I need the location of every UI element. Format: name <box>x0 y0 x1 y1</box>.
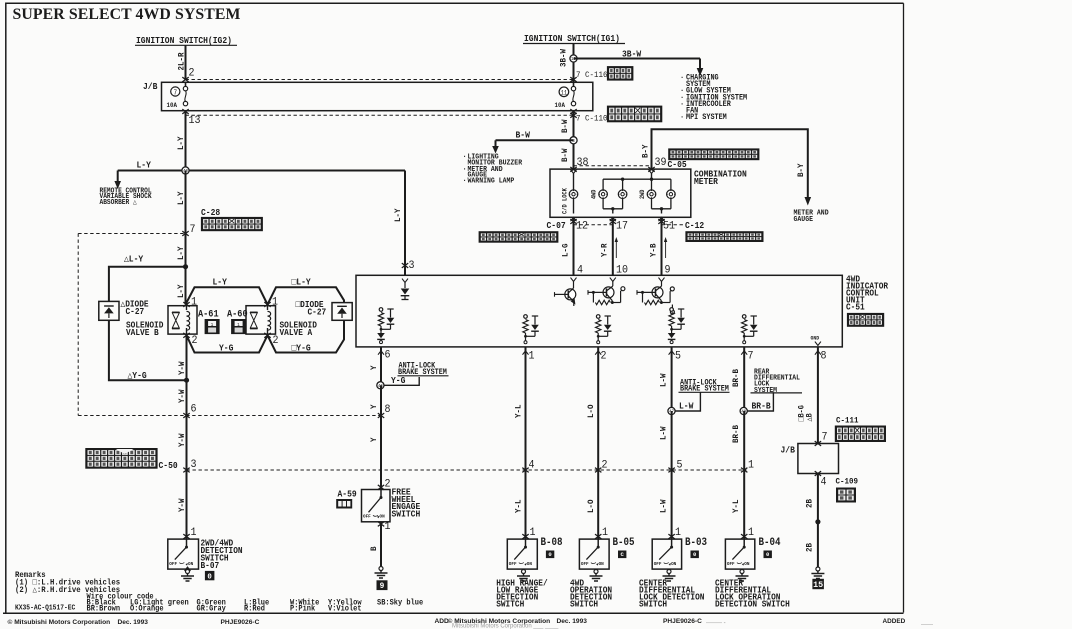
connector C-50 icon <box>85 448 157 469</box>
wire Y-W down to pin 6 crossing <box>186 380 188 415</box>
wire Y to A-59 <box>380 416 382 490</box>
svg-text:8: 8 <box>821 350 827 363</box>
svg-text:L-Y: L-Y <box>177 191 187 205</box>
wire bridge L-Y valves (top left) <box>186 287 268 304</box>
svg-text:ON: ON <box>188 561 193 567</box>
svg-text:1: 1 <box>272 296 278 309</box>
svg-text:1: 1 <box>529 350 535 363</box>
icon below B-07 <box>205 571 215 580</box>
svg-text:5: 5 <box>677 459 683 472</box>
svg-text:1: 1 <box>211 322 214 328</box>
feed wire from 39 to lamp rail <box>651 174 653 180</box>
connector C-109 icon <box>836 488 856 503</box>
svg-text:6: 6 <box>191 403 197 416</box>
junction dot 2B <box>815 519 820 524</box>
svg-text:A-59: A-59 <box>338 489 357 500</box>
svg-text:Y-W: Y-W <box>178 361 188 375</box>
svg-text:OFF: OFF <box>727 561 735 567</box>
junction dot L-Y branch <box>183 264 188 269</box>
lamp group 2WD <box>651 179 653 190</box>
svg-text:Y-L: Y-L <box>514 404 524 418</box>
wire L-O to B-05 <box>597 470 599 539</box>
svg-text:ABSORBER △: ABSORBER △ <box>100 199 137 208</box>
svg-text:2: 2 <box>602 459 608 472</box>
center diff lock operation switch B-04 box <box>725 539 754 569</box>
high/low range switch B-08 box <box>507 539 537 569</box>
icon B-05 <box>618 551 626 559</box>
svg-text:J/B: J/B <box>143 82 157 93</box>
svg-text:·: · <box>680 101 684 110</box>
svg-text:L-W: L-W <box>659 499 669 513</box>
svg-text:ON: ON <box>599 561 604 567</box>
meter entry 38 <box>571 170 577 174</box>
svg-text:OFF: OFF <box>509 561 517 567</box>
wire L-W splice to crossing <box>671 411 673 470</box>
svg-text:6: 6 <box>385 349 391 362</box>
svg-text:Y-L: Y-L <box>731 499 741 513</box>
splice 46 Y-G <box>377 382 384 389</box>
wire 3B-W to systems arrow <box>574 58 701 60</box>
svg-text:10A: 10A <box>167 102 178 109</box>
svg-text:B-W: B-W <box>560 148 570 162</box>
svg-text:SB:Sky blue: SB:Sky blue <box>377 599 424 608</box>
svg-text:C-27: C-27 <box>308 307 327 318</box>
wire pin8 down <box>817 347 819 444</box>
diode at pin 3 input <box>404 283 406 289</box>
anti-lock brake system tap (left) <box>384 377 420 385</box>
svg-text:7 C-110: 7 C-110 <box>576 114 608 124</box>
icon B-04 <box>764 551 772 559</box>
svg-text:C-12: C-12 <box>685 221 704 232</box>
wire Y-B 51 to 9 <box>661 217 663 275</box>
svg-text:V:Violet: V:Violet <box>328 605 362 614</box>
svg-text:ON: ON <box>380 513 385 519</box>
svg-text:C-28: C-28 <box>201 208 220 219</box>
wire triangle diode to junction <box>109 320 187 380</box>
svg-text:L-Y: L-Y <box>177 246 187 260</box>
meter entry 39 <box>649 170 655 174</box>
wire B to ground <box>380 522 382 566</box>
svg-text:L-O: L-O <box>587 404 597 418</box>
wire BR-B splice to crossing <box>743 411 745 470</box>
icon B-08 <box>546 551 554 559</box>
wire branch to diode C-27 (triangle) <box>109 267 186 302</box>
connector C-07 icon <box>479 231 559 243</box>
svg-text:2B: 2B <box>805 499 815 508</box>
svg-text:B-Y: B-Y <box>797 163 807 177</box>
exit chevrons control unit bottom <box>378 351 384 355</box>
lamp rail top <box>603 178 671 180</box>
wire bridge square diode (bottom right) <box>268 320 345 352</box>
svg-text:3B-W: 3B-W <box>559 49 569 67</box>
svg-text:·: · <box>463 177 467 186</box>
connector C-110 icon <box>607 106 662 123</box>
svg-text:△L-Y: △L-Y <box>124 254 144 265</box>
svg-text:BR-B: BR-B <box>752 401 771 412</box>
4WD indicator control unit box C-51 <box>356 275 842 347</box>
svg-text:L-Y: L-Y <box>213 277 228 288</box>
svg-text:C-50: C-50 <box>159 461 178 472</box>
svg-text:4WD: 4WD <box>590 189 597 199</box>
svg-text:OFF: OFF <box>581 561 589 567</box>
lamp C/D LOCK <box>573 174 575 191</box>
svg-text:B-Y: B-Y <box>641 144 651 158</box>
2WD/4WD detection switch B-07 box <box>168 539 199 569</box>
diode C-27 triangle box <box>99 301 119 320</box>
wire Y-W valve B down to junction <box>186 335 188 380</box>
resistor-zener pair pin 2 <box>596 315 600 319</box>
svg-text:B-W: B-W <box>560 119 570 133</box>
wire L-W pin5 to splice <box>671 347 673 411</box>
svg-text:3: 3 <box>191 458 197 471</box>
svg-text:SWITCH: SWITCH <box>639 599 667 610</box>
ground ref 9 <box>377 580 388 590</box>
svg-text:1: 1 <box>675 526 681 539</box>
svg-text:------: ------ <box>921 622 933 628</box>
4WD operation switch B-05 box <box>579 539 609 569</box>
svg-text:5: 5 <box>675 350 681 363</box>
svg-text:WARNING LAMP: WARNING LAMP <box>468 177 515 186</box>
svg-text:L-W: L-W <box>659 373 669 387</box>
svg-text:□L-Y: □L-Y <box>292 277 312 288</box>
wire B-W to lighting arrow <box>496 139 574 141</box>
svg-text:B: B <box>370 546 380 551</box>
valve B pin 1 <box>183 302 189 307</box>
svg-text:BR-B: BR-B <box>731 369 741 387</box>
fuse 11 10A (IG1) <box>559 87 569 97</box>
svg-text:7: 7 <box>174 89 178 96</box>
svg-text:P:Pink: P:Pink <box>290 605 316 614</box>
ground below B-04 <box>740 570 744 574</box>
svg-text:39: 39 <box>655 156 667 169</box>
resistor-zener pair pin 5 <box>670 308 674 312</box>
splice 48 BR-B <box>740 407 747 414</box>
free wheel engage switch A-59 box <box>362 490 391 522</box>
svg-text:Y-G: Y-G <box>219 343 233 354</box>
wire IG2 feed 2L-R <box>185 45 187 80</box>
svg-text:SYSTEM: SYSTEM <box>754 386 777 395</box>
wire Y-L pin1 down <box>525 347 527 470</box>
svg-text:7: 7 <box>748 350 754 363</box>
svg-text:GR:Gray: GR:Gray <box>197 605 227 614</box>
svg-text:B-07: B-07 <box>201 561 220 572</box>
connector C-116 icon <box>607 66 634 81</box>
valve A pin 2 <box>264 333 270 338</box>
svg-text:1: 1 <box>748 459 754 472</box>
svg-text:A-60: A-60 <box>227 308 248 320</box>
svg-text:1: 1 <box>748 526 754 539</box>
connector C-111 icon <box>835 426 886 443</box>
connector icon A-61 <box>205 319 220 334</box>
svg-text:L-Y: L-Y <box>177 136 187 150</box>
svg-text:4: 4 <box>821 476 827 489</box>
svg-text:17: 17 <box>616 220 628 233</box>
lamp group 4WD <box>602 179 604 190</box>
wire Y-W to C-50 <box>186 416 188 471</box>
dashed option box (LH/RH drive) <box>78 233 185 235</box>
dashed C-05 line <box>574 165 652 167</box>
wire B-W fuse to splice <box>573 111 575 170</box>
valve B pin 2 <box>183 333 189 338</box>
splice 40 L-Y <box>182 167 189 174</box>
svg-text:7 C-116: 7 C-116 <box>576 71 608 81</box>
svg-text:Y-W: Y-W <box>178 433 188 447</box>
wire B-Y to meter and gauge <box>652 129 808 198</box>
svg-text:GND: GND <box>811 335 820 341</box>
wire Y-W to B-07 <box>186 470 188 539</box>
resistor-zener pair pin 7 <box>742 315 746 319</box>
solenoid valve A symbol <box>250 311 258 313</box>
svg-text:IGNITION SWITCH(IG1): IGNITION SWITCH(IG1) <box>524 34 620 45</box>
wire BR-B pin7 to splice <box>743 347 745 411</box>
svg-text:-------- -: -------- - <box>706 621 726 627</box>
svg-text:OFF: OFF <box>363 513 371 519</box>
svg-text:VALVE A: VALVE A <box>280 327 314 338</box>
svg-text:·: · <box>463 165 467 174</box>
wire L-G 12 to 4 <box>573 217 575 275</box>
svg-text:OFF: OFF <box>654 561 662 567</box>
pin 4 crossing C-109 <box>815 471 821 476</box>
svg-text:3: 3 <box>409 259 415 272</box>
valve A pin 1 <box>264 302 270 307</box>
solenoid valve A box <box>246 306 276 334</box>
connector icon A-60 <box>231 319 246 334</box>
dashed C-12 line <box>662 224 684 226</box>
dashed C-07 line <box>574 224 613 226</box>
wire bridge to square diode (top right) <box>268 287 345 304</box>
junction block J/B right box <box>798 444 839 474</box>
svg-text:SWITCH: SWITCH <box>496 599 524 610</box>
svg-text:L-G: L-G <box>561 243 571 257</box>
splice 47 L-W <box>668 407 675 414</box>
svg-text:2: 2 <box>192 334 198 347</box>
connector C-05 icon <box>668 148 759 160</box>
svg-text:ON: ON <box>744 561 749 567</box>
svg-text:B-05: B-05 <box>613 536 635 548</box>
ground bottom right <box>816 567 820 571</box>
svg-text:15: 15 <box>813 580 823 590</box>
svg-text:B-08: B-08 <box>541 536 563 548</box>
svg-text:GAUGE: GAUGE <box>794 216 814 225</box>
connector C-28 icon <box>201 217 263 231</box>
svg-text:SWITCH: SWITCH <box>570 599 598 610</box>
icon B-03 <box>691 551 699 559</box>
svg-text:38: 38 <box>577 156 589 169</box>
wire Y splice to pin8 crossing <box>380 385 382 415</box>
rear differential lock system tap <box>747 392 773 411</box>
arrow to remote control shock absorber <box>117 171 119 183</box>
svg-text:IGNITION SWITCH(IG2): IGNITION SWITCH(IG2) <box>136 36 232 47</box>
svg-text:Y: Y <box>370 365 380 370</box>
svg-text:1: 1 <box>602 526 608 539</box>
svg-text:Dec. 1993: Dec. 1993 <box>118 619 149 626</box>
svg-text:7: 7 <box>822 431 828 444</box>
ground below B-07 <box>187 567 189 569</box>
wire L-Y horizontal rail <box>118 170 405 172</box>
svg-text:VALVE B: VALVE B <box>126 327 159 338</box>
ground below B-03 <box>667 570 671 574</box>
svg-text:·: · <box>463 153 467 162</box>
wire Y-R 17 to 10 <box>612 217 614 275</box>
svg-text:B-W: B-W <box>516 130 531 141</box>
fuse 7 10A (IG2) <box>171 87 180 96</box>
svg-text:Y-R: Y-R <box>600 243 610 257</box>
svg-text:11: 11 <box>561 89 568 96</box>
dashed connector line y415 <box>78 415 381 417</box>
svg-text:2: 2 <box>189 67 195 80</box>
svg-text:Y: Y <box>370 404 380 409</box>
svg-text:BR:Brown: BR:Brown <box>87 605 121 614</box>
svg-text:·: · <box>680 114 684 123</box>
svg-text:L-W: L-W <box>659 426 669 440</box>
solenoid valve B symbol <box>172 311 180 313</box>
wire L-O pin2 down <box>597 347 599 470</box>
ground below B-08 <box>523 568 525 571</box>
svg-text:51: 51 <box>663 220 675 233</box>
crossing marks meter outputs <box>570 219 576 224</box>
transistor for pin 4 <box>565 289 576 300</box>
transistor for pin 10 <box>603 287 614 298</box>
entry chevron pin 3 <box>402 279 408 283</box>
svg-text:SUPER SELECT 4WD SYSTEM: SUPER SELECT 4WD SYSTEM <box>13 6 241 23</box>
svg-text:3B-W: 3B-W <box>622 49 642 60</box>
svg-text:2WD: 2WD <box>639 189 646 199</box>
svg-text:B-03: B-03 <box>685 536 707 548</box>
svg-text:Y: Y <box>370 437 380 442</box>
splice B-W <box>570 137 577 144</box>
svg-text:METER: METER <box>694 177 719 188</box>
svg-text:Dec. 1993: Dec. 1993 <box>557 618 588 625</box>
svg-text:DETECTION SWITCH: DETECTION SWITCH <box>715 599 790 610</box>
svg-text:1: 1 <box>385 520 391 533</box>
wire 2B to ground <box>817 474 819 568</box>
anti-lock brake system tap (right) <box>675 392 700 411</box>
current arrow Y-R <box>615 241 617 259</box>
wire L-Y from fuse to splice <box>185 111 187 171</box>
svg-text:PHJE9026-C: PHJE9026-C <box>663 618 702 625</box>
svg-text:BR-B: BR-B <box>731 425 741 443</box>
svg-text:C-109: C-109 <box>836 477 859 487</box>
junction dot Y-W <box>184 378 189 383</box>
svg-text:A-61: A-61 <box>198 308 219 320</box>
wire L-Y rail down to pin 3 <box>404 171 406 276</box>
svg-text:8: 8 <box>385 403 391 416</box>
svg-text:2: 2 <box>601 350 607 363</box>
svg-text:ON: ON <box>671 561 676 567</box>
svg-text:OFF: OFF <box>169 561 177 567</box>
connector C-51 icon <box>847 313 884 327</box>
ground below B-05 <box>594 570 598 574</box>
svg-text:2L-R: 2L-R <box>177 52 187 70</box>
lamp exits <box>612 209 614 214</box>
svg-text:Y-B: Y-B <box>649 243 659 257</box>
svg-text:L-O: L-O <box>587 499 597 513</box>
resistor-zener pair pin 1 <box>524 315 528 319</box>
svg-text:B-04: B-04 <box>759 536 781 548</box>
svg-text:C/D LOCK: C/D LOCK <box>561 188 568 214</box>
dashed connector line y470 <box>187 469 747 471</box>
svg-text:·: · <box>680 74 684 83</box>
current arrow Y-B <box>665 241 667 259</box>
svg-text:C-111: C-111 <box>836 416 859 426</box>
svg-text:C-51: C-51 <box>846 302 865 313</box>
wire Y-L to B-08 <box>525 470 527 539</box>
svg-text:Mitsubishi Motors Corporation: Mitsubishi Motors Corporation ___ ____ <box>452 624 559 629</box>
svg-text:SWITCH: SWITCH <box>392 509 421 520</box>
splice 3B-W <box>570 55 577 62</box>
svg-text:□Y-G: □Y-G <box>292 343 311 354</box>
svg-text:1: 1 <box>191 296 197 309</box>
transistor for pin 9 <box>652 287 663 298</box>
ground A-59 <box>379 567 383 571</box>
svg-text:O:Orange: O:Orange <box>130 605 164 614</box>
svg-text:L-Y: L-Y <box>394 208 404 222</box>
resistor-zener pair pin 6 <box>379 308 383 312</box>
svg-text:ADDED: ADDED <box>883 618 906 625</box>
svg-text:L-Y: L-Y <box>177 284 187 298</box>
ground ref 15 <box>812 579 824 589</box>
svg-text:© Mitsubishi Motors Corporatio: © Mitsubishi Motors Corporation <box>8 618 111 626</box>
svg-text:9: 9 <box>380 583 385 591</box>
wire L-Y to solenoid junction <box>185 234 187 305</box>
svg-text:L-W: L-W <box>679 401 694 412</box>
svg-text:J/B: J/B <box>781 445 795 456</box>
svg-text:1: 1 <box>237 322 240 328</box>
svg-text:4: 4 <box>529 459 535 472</box>
svg-text:7: 7 <box>190 223 196 236</box>
wire Y-L to B-04 <box>743 470 745 539</box>
wire IG1 3B-W <box>573 44 575 83</box>
wire bridge Y-G valves (bottom left) <box>187 335 268 352</box>
svg-text:MPI SYSTEM: MPI SYSTEM <box>686 114 727 123</box>
svg-text:△B: △B <box>806 413 815 422</box>
wire L-Y splice to C-28 <box>185 171 187 234</box>
svg-text:C-07: C-07 <box>547 221 566 232</box>
svg-text:13: 13 <box>189 114 201 127</box>
svg-text:0: 0 <box>207 573 212 581</box>
solenoid valve B box <box>168 306 197 334</box>
svg-text:Y-W: Y-W <box>178 498 188 512</box>
svg-text:2B: 2B <box>805 543 815 552</box>
svg-text:12: 12 <box>576 220 588 233</box>
junction block J/B bus (dashed) <box>186 79 574 81</box>
svg-text:PHJE9026-C: PHJE9026-C <box>221 619 260 626</box>
svg-text:10A: 10A <box>555 102 566 109</box>
svg-text:ON: ON <box>527 561 532 567</box>
svg-text:R:Red: R:Red <box>244 605 265 614</box>
entry chevrons pins 4 10 9 <box>571 278 577 282</box>
svg-text:KX35-AC-Q1517-EC: KX35-AC-Q1517-EC <box>15 604 75 613</box>
svg-text:C-27: C-27 <box>126 307 145 318</box>
svg-text:Y-W: Y-W <box>178 389 188 403</box>
connector icon A-59 <box>336 499 352 509</box>
combination meter box <box>550 169 691 217</box>
svg-text:1: 1 <box>530 526 536 539</box>
diode C-27 square box <box>332 303 352 321</box>
wire Y pin6 to splice <box>380 347 382 385</box>
svg-text:Y-L: Y-L <box>514 499 524 513</box>
connector C-12 icon <box>685 231 763 242</box>
junction block J/B box <box>162 82 593 110</box>
svg-text:1: 1 <box>191 526 197 539</box>
svg-text:L-Y: L-Y <box>137 160 152 171</box>
wire L-W to B-03 <box>671 470 673 539</box>
center diff lock detection switch B-03 box <box>652 539 681 569</box>
